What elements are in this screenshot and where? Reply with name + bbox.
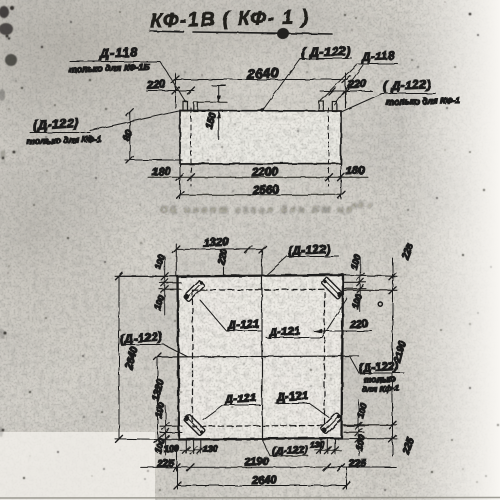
- bottom dimension 2640: [174, 467, 350, 489]
- label (Д-122) left with note: [27, 111, 180, 146]
- svg-text:220: 220: [347, 78, 368, 91]
- lighter interior of plan view: [179, 277, 342, 438]
- svg-text:КФ-1В ( КФ- 1 ): КФ-1В ( КФ- 1 ): [150, 6, 310, 32]
- scan artefact: left edge smudges: [0, 6, 17, 437]
- svg-text:130: 130: [203, 443, 218, 454]
- label (Д-122) right of plan with note: [350, 357, 404, 394]
- plan centre horizontal line: [158, 356, 359, 357]
- label (Д-122) top-center: [261, 44, 352, 112]
- top plate left 2: [194, 102, 198, 112]
- label (Д-122) right with note: [341, 77, 461, 112]
- svg-text:только для КФ-1: только для КФ-1: [386, 95, 461, 106]
- svg-text:Д-121: Д-121: [268, 325, 301, 339]
- label Д-118 top-left: [69, 45, 186, 102]
- svg-text:180: 180: [346, 164, 366, 177]
- label (Д-122) left of plan: [120, 331, 188, 357]
- svg-text:2200: 2200: [251, 166, 279, 179]
- gusset top-right: [321, 277, 343, 299]
- svg-text:Д-121: Д-121: [224, 392, 257, 406]
- right lower 100/100 stack: [344, 400, 369, 455]
- gusset bottom-right: [321, 413, 343, 435]
- dimension 1320 top of plan: [173, 236, 266, 276]
- elevation beam outline: [180, 111, 341, 165]
- dimension row 180 2200 180: [148, 164, 368, 180]
- title КФ-1В (КФ-1): [150, 6, 332, 34]
- dimension 80 left vertical: [121, 109, 182, 164]
- svg-text:225: 225: [348, 458, 367, 470]
- svg-text:( Д-122): ( Д-122): [301, 44, 351, 60]
- faint stamp smudge row: [160, 201, 373, 216]
- svg-text:2190: 2190: [244, 456, 269, 469]
- label Д-121 upper-right with leader: [266, 299, 347, 339]
- right upper 100/100 stack: [344, 253, 366, 312]
- plate top reference line: [198, 101, 227, 103]
- svg-text:Д-121: Д-121: [276, 390, 309, 404]
- left lower 100/100 stack: [153, 402, 182, 455]
- svg-text:(Д-122): (Д-122): [288, 244, 331, 258]
- plan centre vertical line: [261, 250, 263, 439]
- lighter interior of elevation view: [181, 111, 340, 163]
- dimension 220 arrow right-mid: [314, 318, 372, 333]
- bottom small chain left 100 130: [164, 439, 218, 454]
- svg-text:130: 130: [310, 439, 325, 450]
- scan artefact: bottom-left baseline: [0, 497, 500, 500]
- svg-text:для Кф-1: для Кф-1: [362, 383, 400, 394]
- label Д-121 upper-left with leader: [200, 300, 261, 332]
- right vertical dimension chain 225 2190 225: [343, 242, 417, 457]
- elevation dashed anchor line left: [190, 108, 192, 186]
- top plate left 1: [183, 102, 188, 112]
- gusset top-left: [183, 280, 205, 302]
- svg-text:Д-118: Д-118: [99, 45, 139, 60]
- elevation dashed anchor line right: [328, 108, 330, 186]
- plan inner dashed square: [193, 289, 325, 426]
- top plate right 1: [319, 101, 324, 111]
- small dot circle right-mid: [379, 303, 383, 307]
- svg-text:нд п: нд п: [352, 201, 373, 210]
- svg-text:2640: 2640: [251, 474, 278, 487]
- bottom dimension chain 225 2190 225: [141, 445, 396, 471]
- dimension 2560: [177, 184, 346, 198]
- plan outer square: [178, 275, 344, 440]
- left upper 100/100 stack: [120, 253, 181, 315]
- dimension 150 vertical: [204, 86, 226, 140]
- dimension 220 top-right: [320, 78, 372, 94]
- label Д-118 top-right: [320, 50, 399, 105]
- label (Д-122) top-right of plan: [267, 244, 339, 275]
- top plate right 2: [332, 102, 337, 112]
- svg-text:Д-121: Д-121: [227, 318, 260, 332]
- gusset bottom-left: [184, 414, 206, 436]
- elevation right edge extension: [340, 164, 342, 200]
- svg-text:2560: 2560: [252, 184, 280, 197]
- dimension 2640 top: [171, 65, 351, 108]
- svg-text:Д-118: Д-118: [361, 50, 396, 64]
- dimension 220 below 1320: [216, 247, 230, 276]
- left vertical dimension 1320: [150, 353, 166, 442]
- label (Д-122) bottom-center: [262, 439, 309, 457]
- scan artefact: black blob top-centre: [276, 27, 290, 41]
- svg-text:180: 180: [152, 166, 172, 179]
- svg-text:220: 220: [146, 79, 167, 92]
- elevation left edge extension: [179, 164, 181, 199]
- label Д-121 lower-right with leader: [275, 390, 329, 418]
- label Д-121 lower-left with leader: [203, 392, 260, 419]
- svg-text:220: 220: [349, 318, 368, 331]
- svg-text:1320: 1320: [203, 236, 230, 249]
- svg-text:Об инопт газал для БМ нп: Об инопт газал для БМ нп: [160, 204, 355, 216]
- bottom small chain right 130 100: [310, 439, 341, 454]
- dimension 220 top-left: [146, 79, 195, 94]
- svg-text:( Д-122): ( Д-122): [383, 77, 431, 93]
- left vertical dimension 2640: [115, 273, 179, 443]
